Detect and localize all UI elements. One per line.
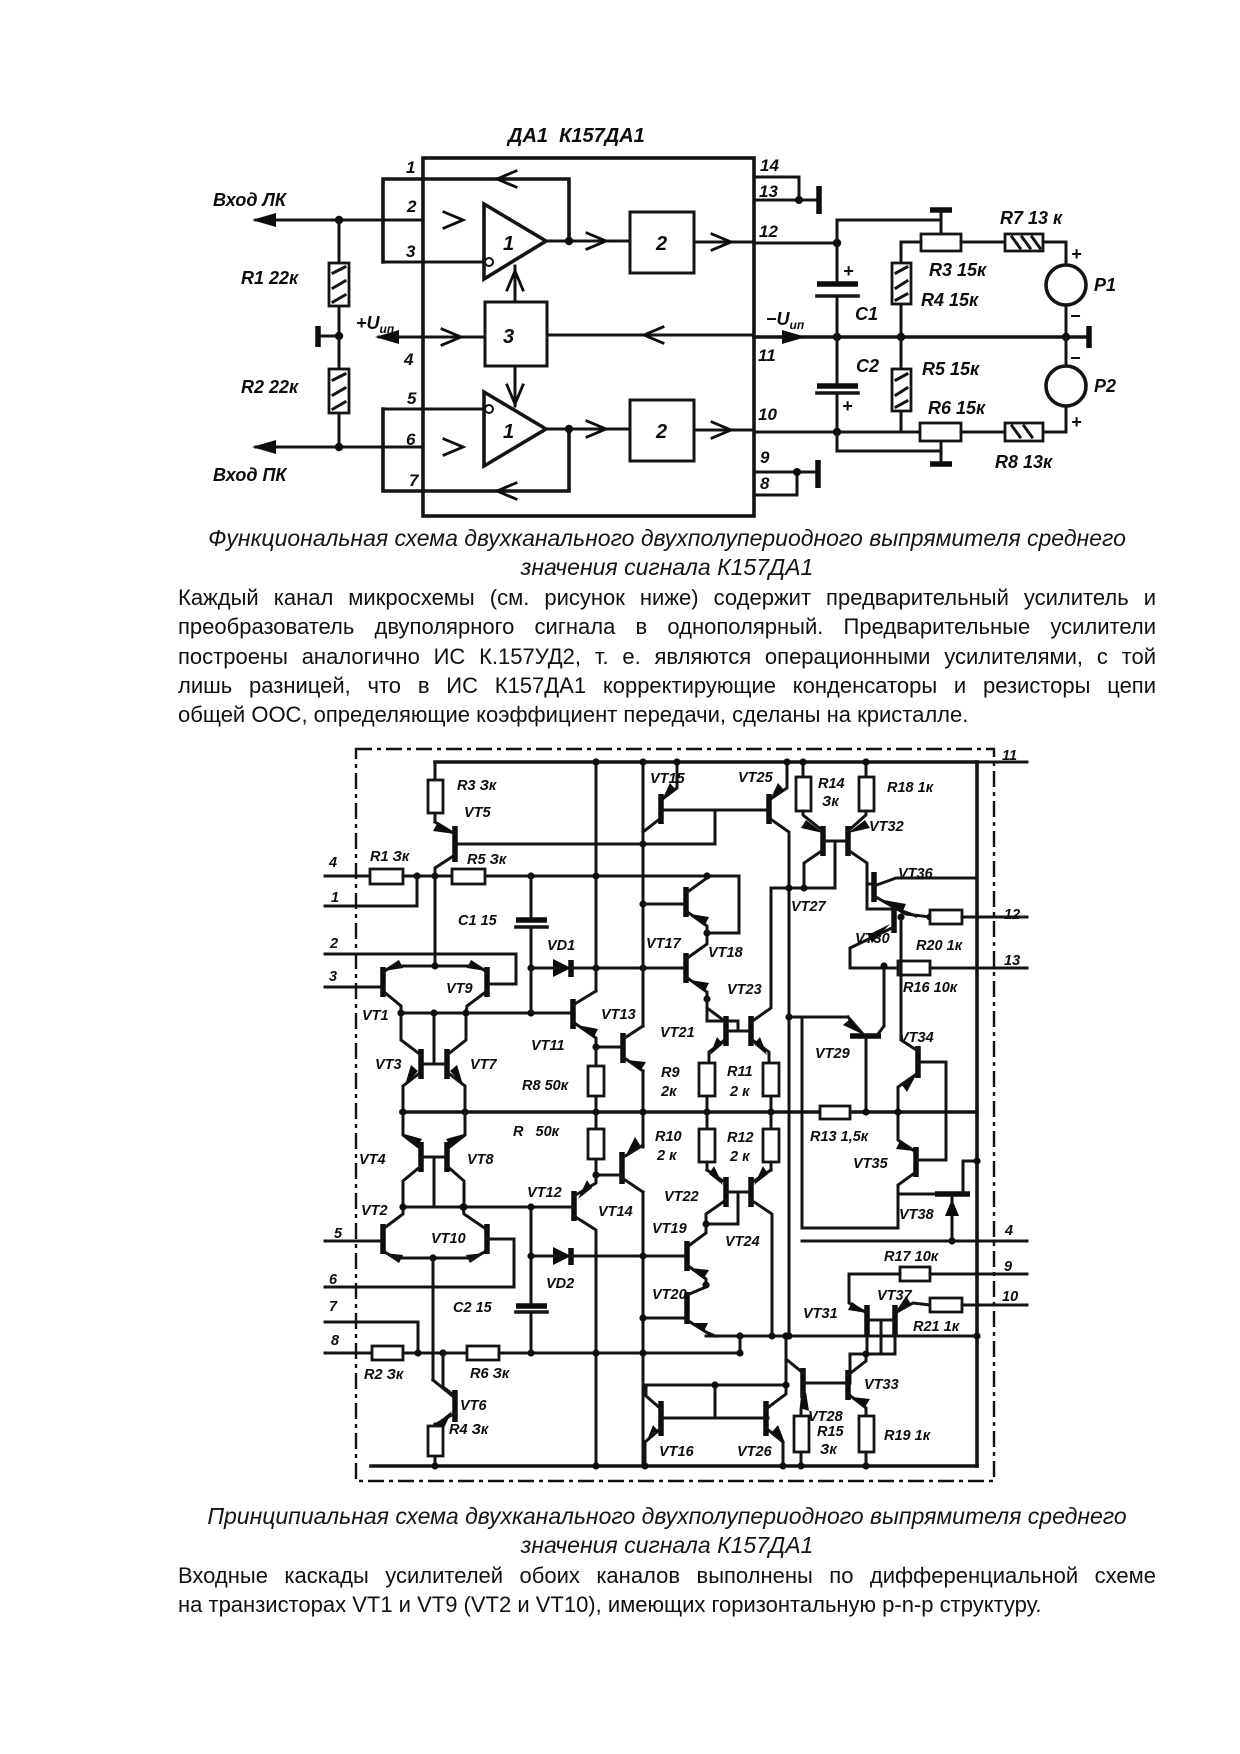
IC DA1 box xyxy=(423,158,754,516)
link line lower mid xyxy=(706,1335,977,1338)
svg-text:VT18: VT18 xyxy=(708,945,744,961)
svg-text:С2 15: С2 15 xyxy=(453,1300,493,1316)
svg-text:1: 1 xyxy=(406,158,415,177)
collector line to VT11 base xyxy=(401,1012,573,1015)
svg-text:1: 1 xyxy=(331,890,339,906)
wire pin9 to terminal xyxy=(754,471,817,474)
svg-text:8: 8 xyxy=(331,1333,340,1349)
svg-text:Вход ЛК: Вход ЛК xyxy=(213,190,288,210)
svg-text:R5 15к: R5 15к xyxy=(922,359,980,379)
svg-text:2 к: 2 к xyxy=(729,1149,750,1165)
svg-text:VT2: VT2 xyxy=(361,1203,388,1219)
collector loop left edge xyxy=(789,1017,898,1228)
svg-text:VT17: VT17 xyxy=(646,936,682,952)
svg-text:R16 10к: R16 10к xyxy=(903,980,958,996)
svg-text:VT20: VT20 xyxy=(652,1287,687,1303)
resistor R10 2k xyxy=(706,1112,709,1129)
svg-text:VT13: VT13 xyxy=(601,1007,636,1023)
wire pin14 xyxy=(754,177,799,200)
node input top xyxy=(335,216,343,224)
right inner supply rail xyxy=(975,762,979,1466)
resistor R15 3k xyxy=(794,1416,809,1452)
svg-text:R1 Зк: R1 Зк xyxy=(370,849,410,865)
mid rail -Uip xyxy=(754,335,1089,339)
svg-text:R10: R10 xyxy=(655,1129,682,1145)
resistor R3 3k xyxy=(434,762,437,822)
svg-text:6: 6 xyxy=(406,430,416,449)
svg-text:R11: R11 xyxy=(727,1064,753,1080)
wire R6 onward xyxy=(499,1352,740,1355)
svg-text:5: 5 xyxy=(407,389,417,408)
svg-text:9: 9 xyxy=(760,448,770,467)
svg-text:R9: R9 xyxy=(661,1065,680,1081)
svg-text:VT35: VT35 xyxy=(853,1156,889,1172)
svg-text:2к: 2к xyxy=(660,1084,677,1100)
feedback loop op-amp1 xyxy=(383,179,569,262)
wire R7 to P1 xyxy=(1043,242,1066,265)
terminal T below R6 xyxy=(940,441,943,464)
wire R8 to P2 xyxy=(1043,406,1066,432)
wire pin7 joining pin8 node xyxy=(325,1322,418,1353)
svg-text:7: 7 xyxy=(329,1299,338,1315)
svg-text:R5 Зк: R5 Зк xyxy=(467,852,507,868)
svg-text:VT14: VT14 xyxy=(598,1204,633,1220)
svg-text:VD2: VD2 xyxy=(546,1276,574,1292)
long vertical from top rail xyxy=(595,762,598,991)
arrow into op-amp2 input xyxy=(444,439,463,455)
wire pin8 joining pin9 xyxy=(754,472,797,495)
svg-text:VT5: VT5 xyxy=(464,805,492,821)
resistor R3 15k xyxy=(921,234,961,251)
resistor R6 3k xyxy=(467,1346,499,1360)
svg-text:VT1: VT1 xyxy=(362,1008,389,1024)
resistor R14 3k xyxy=(802,762,805,777)
svg-text:3: 3 xyxy=(406,242,416,261)
emitter rail VT1-VT9 xyxy=(397,965,473,968)
svg-text:VT29: VT29 xyxy=(815,1046,850,1062)
svg-text:R19 1к: R19 1к xyxy=(884,1428,931,1444)
svg-text:3: 3 xyxy=(329,969,337,985)
resistor R9 2k xyxy=(699,1063,715,1096)
svg-text:+Uип: +Uип xyxy=(356,313,395,336)
inverting circle op-amp1 xyxy=(485,258,493,266)
paragraph 1 xyxy=(178,583,1156,729)
svg-text:R20 1к: R20 1к xyxy=(916,938,963,954)
svg-text:3: 3 xyxy=(503,326,514,348)
svg-text:VT10: VT10 xyxy=(431,1231,466,1247)
resistor R20 1k xyxy=(930,910,962,924)
arrow on -U wire xyxy=(782,330,806,344)
svg-text:+: + xyxy=(843,261,854,281)
svg-text:R 50к: R 50к xyxy=(513,1124,560,1140)
svg-text:VT9: VT9 xyxy=(446,981,473,997)
wire R1 to R5 xyxy=(403,875,452,878)
svg-text:VT36: VT36 xyxy=(898,866,934,882)
arrow feedback bottom xyxy=(497,483,516,499)
arrow pin4 left end xyxy=(375,330,399,344)
arrow input PK left xyxy=(252,440,276,454)
resistor R6 15k xyxy=(920,423,961,441)
wire pin10 line xyxy=(754,431,920,434)
svg-text:10: 10 xyxy=(1002,1289,1018,1305)
svg-text:R2 Зк: R2 Зк xyxy=(364,1367,404,1383)
svg-text:+: + xyxy=(1071,244,1082,264)
svg-text:P2: P2 xyxy=(1094,376,1116,396)
arrow feedback top left xyxy=(497,171,516,187)
resistor R12 2k xyxy=(770,1112,773,1129)
terminal T above R3 xyxy=(940,211,943,234)
base tie VT28-VT33 xyxy=(803,1382,848,1385)
svg-text:R14: R14 xyxy=(818,776,845,792)
base line VT12 xyxy=(401,1206,574,1209)
svg-text:VT23: VT23 xyxy=(727,982,762,998)
arrow into op-amp1 input xyxy=(444,212,463,228)
wire R3 to R7 xyxy=(961,241,1005,244)
svg-text:VT11: VT11 xyxy=(531,1038,565,1054)
feedback loop op-amp2 xyxy=(383,409,569,491)
wire pin6 xyxy=(325,1239,514,1287)
svg-text:VT25: VT25 xyxy=(738,770,774,786)
emitter rail VT2-VT10 xyxy=(395,1257,473,1260)
wire pin3 to inverting input xyxy=(383,261,481,264)
wire pin3 to VT1 base xyxy=(325,986,383,989)
svg-text:VT16: VT16 xyxy=(659,1444,695,1460)
wire R5 to VT18 collector loop xyxy=(485,876,739,933)
wire P2 to mid rail xyxy=(1065,337,1068,366)
resistor R18 1k xyxy=(865,762,868,777)
wire pin4 +U xyxy=(379,336,485,339)
common tap terminal xyxy=(318,335,339,338)
arrow op-amp1 to block2 xyxy=(587,233,606,249)
wire bottom input pin6 xyxy=(256,446,423,449)
svg-text:−Uип: −Uип xyxy=(766,309,805,332)
wire pin13 to terminal xyxy=(754,199,817,202)
wire top input pin2 xyxy=(256,219,423,222)
resistor R8 50k xyxy=(595,1047,598,1112)
arrow op-amp2 to block2 xyxy=(587,421,606,437)
svg-text:R8 50к: R8 50к xyxy=(522,1078,569,1094)
caption: functional schematic xyxy=(178,524,1156,582)
wire pin1 joining pin4 node xyxy=(325,876,417,906)
arrow up into op-amp1 xyxy=(507,271,523,290)
wire op-amp2 output xyxy=(546,428,630,431)
wire pin12 to C chain xyxy=(754,242,837,245)
wire down to lower branch xyxy=(837,432,941,451)
svg-text:VT21: VT21 xyxy=(660,1025,695,1041)
VT17 base wire xyxy=(643,903,686,906)
svg-text:2: 2 xyxy=(655,233,667,255)
resistor R2 22k xyxy=(338,336,341,447)
base tie VT22-VT24 xyxy=(706,1192,751,1224)
svg-text:2: 2 xyxy=(329,936,338,952)
wire pin9 xyxy=(930,1273,1027,1276)
wire pin8 line xyxy=(325,1352,372,1355)
svg-text:С2: С2 xyxy=(856,356,879,376)
wire block2 top to pin12 xyxy=(694,241,754,244)
resistor R4 15k xyxy=(900,242,903,337)
svg-text:8: 8 xyxy=(760,474,770,493)
arrow input LK left xyxy=(252,213,276,227)
svg-text:R17 10к: R17 10к xyxy=(884,1249,939,1265)
capacitor C2 15 xyxy=(530,1207,533,1353)
arrow down into op-amp2 xyxy=(507,385,523,404)
svg-text:R3 Зк: R3 Зк xyxy=(457,778,497,794)
svg-text:VT22: VT22 xyxy=(664,1189,699,1205)
mid ground rail xyxy=(401,1110,977,1114)
svg-text:13: 13 xyxy=(759,182,778,201)
svg-text:R6 15к: R6 15к xyxy=(928,398,986,418)
resistor R1 3k xyxy=(370,869,403,884)
svg-text:VT27: VT27 xyxy=(791,899,827,915)
svg-text:VT3: VT3 xyxy=(375,1057,402,1073)
resistor R1 22k xyxy=(338,220,341,336)
svg-text:С1: С1 xyxy=(855,304,878,324)
op-amp U2 bottom xyxy=(484,392,546,466)
svg-text:14: 14 xyxy=(760,156,779,175)
svg-text:2 к: 2 к xyxy=(729,1084,750,1100)
svg-text:VD1: VD1 xyxy=(547,938,575,954)
svg-text:VT12: VT12 xyxy=(527,1185,562,1201)
wire up to R3 branch xyxy=(837,220,941,243)
bottom rail xyxy=(371,1464,977,1468)
svg-text:R7 13 к: R7 13 к xyxy=(1000,208,1063,228)
svg-text:R4 Зк: R4 Зк xyxy=(449,1422,489,1438)
svg-text:VT15: VT15 xyxy=(650,771,686,787)
svg-text:VT33: VT33 xyxy=(864,1377,899,1393)
svg-text:2 к: 2 к xyxy=(656,1148,677,1164)
svg-text:VT6: VT6 xyxy=(460,1398,488,1414)
svg-text:R18 1к: R18 1к xyxy=(887,780,934,796)
terminal bar top right xyxy=(816,186,822,214)
svg-text:VT38: VT38 xyxy=(899,1207,935,1223)
riser from R6 line xyxy=(739,1336,742,1353)
capacitor C1 15 xyxy=(530,876,533,968)
svg-text:VT7: VT7 xyxy=(470,1057,498,1073)
svg-text:VT4: VT4 xyxy=(359,1152,386,1168)
block 2 bottom xyxy=(630,400,694,461)
wire pin11 stub xyxy=(977,761,1027,764)
svg-text:Вход ПК: Вход ПК xyxy=(213,465,288,485)
resistor R11 2k xyxy=(763,1063,779,1096)
svg-text:10: 10 xyxy=(758,405,777,424)
wire R2 to R6 xyxy=(403,1352,467,1355)
base tie VT31-VT37 xyxy=(850,1320,895,1383)
positive supply top rail xyxy=(435,760,977,764)
node input bottom xyxy=(335,443,343,451)
caption: principal schematic xyxy=(178,1502,1156,1560)
base wire VT20 xyxy=(643,1317,687,1320)
svg-text:4: 4 xyxy=(328,855,337,871)
capacitor C1 xyxy=(836,243,839,337)
wire block3 to op-amp1 xyxy=(514,266,517,302)
svg-text:R1 22к: R1 22к xyxy=(241,268,299,288)
svg-text:Зк: Зк xyxy=(820,1442,837,1458)
base tie VT3-VT7 xyxy=(421,1013,447,1064)
svg-text:VT19: VT19 xyxy=(652,1221,687,1237)
terminal bar mid right xyxy=(1086,326,1092,348)
base tie VT16-VT26 xyxy=(645,1385,786,1418)
wire pin4 line xyxy=(802,1240,1027,1243)
wire pin5 to VT2 base xyxy=(325,1240,383,1243)
wire R3 left to R4 xyxy=(901,241,921,244)
svg-text:R8 13к: R8 13к xyxy=(995,452,1053,472)
svg-text:7: 7 xyxy=(409,471,420,490)
svg-text:R21 1к: R21 1к xyxy=(913,1319,960,1335)
svg-text:R6 Зк: R6 Зк xyxy=(470,1366,510,1382)
resistor R4 3k xyxy=(434,1424,437,1466)
base tie VT15-VT25 xyxy=(661,810,769,844)
chip boundary dash-dot border xyxy=(356,749,994,1481)
mirror node line xyxy=(771,887,835,890)
capacitor C2 xyxy=(836,337,839,432)
arrow on pin11 wire pointing left xyxy=(644,327,663,343)
resistor R5 3k xyxy=(452,869,485,884)
svg-text:2: 2 xyxy=(655,421,667,443)
meter P2 xyxy=(1046,366,1086,406)
svg-text:R3 15к: R3 15к xyxy=(929,260,987,280)
wire block2 bottom to pin10 xyxy=(694,429,754,432)
svg-text:VT24: VT24 xyxy=(725,1234,760,1250)
svg-text:R2 22к: R2 22к xyxy=(241,377,299,397)
svg-text:R4 15к: R4 15к xyxy=(921,290,979,310)
op-amp U1 top xyxy=(484,204,546,279)
svg-text:R12: R12 xyxy=(727,1130,754,1146)
base tie VT4-VT8 xyxy=(421,1157,447,1207)
arrow pin4 into block3 xyxy=(442,329,461,345)
base tie VT27-VT32 xyxy=(823,841,848,888)
svg-text:Зк: Зк xyxy=(822,794,839,810)
terminal bar bottom right xyxy=(815,460,821,488)
svg-text:VT32: VT32 xyxy=(869,819,904,835)
svg-text:−: − xyxy=(1070,348,1081,368)
wire R6 to R8 xyxy=(961,431,1005,434)
base tie VT21-VT23 xyxy=(707,999,751,1031)
svg-text:11: 11 xyxy=(758,346,776,365)
wire pin12 with R20 xyxy=(926,913,933,920)
svg-text:R15: R15 xyxy=(817,1424,845,1440)
wire block3 to op-amp2 xyxy=(514,366,517,406)
resistor R13 1.5k xyxy=(820,1106,850,1119)
svg-text:12: 12 xyxy=(1004,907,1020,923)
arrow to pin12 xyxy=(712,234,731,250)
svg-text:4: 4 xyxy=(403,350,414,369)
arrow to pin10 xyxy=(712,422,731,438)
inverting circle op-amp2 xyxy=(485,405,493,413)
svg-text:12: 12 xyxy=(759,222,778,241)
resistor R 50k xyxy=(595,1112,598,1175)
svg-text:VT28: VT28 xyxy=(808,1409,844,1425)
svg-text:С1 15: С1 15 xyxy=(458,913,498,929)
svg-text:1: 1 xyxy=(503,233,514,255)
resistor R2 3k xyxy=(372,1346,403,1360)
svg-text:2: 2 xyxy=(406,197,417,216)
wire C1 node down xyxy=(530,968,533,1013)
svg-text:+: + xyxy=(1071,412,1082,432)
resistor R5 15k xyxy=(901,337,920,432)
resistor R19 1k xyxy=(859,1416,874,1452)
long mid vertical xyxy=(642,762,645,1466)
svg-text:−: − xyxy=(1070,306,1081,326)
resistor R16 10k xyxy=(898,961,930,975)
wire block3 to pin11 xyxy=(547,334,754,337)
svg-text:VT8: VT8 xyxy=(467,1152,495,1168)
svg-text:+: + xyxy=(842,396,853,416)
paragraph 2 xyxy=(178,1561,1156,1620)
wire pin2 xyxy=(325,954,516,984)
wire pin4 line with R1 xyxy=(325,875,370,878)
resistor R7 13k xyxy=(1005,234,1043,251)
svg-text:VT26: VT26 xyxy=(737,1444,773,1460)
svg-text:VT31: VT31 xyxy=(803,1306,838,1322)
svg-text:P1: P1 xyxy=(1094,275,1116,295)
wire P1 to mid rail xyxy=(1065,305,1068,337)
svg-text:1: 1 xyxy=(503,421,514,443)
meter P1 xyxy=(1046,265,1086,305)
svg-text:R13 1,5к: R13 1,5к xyxy=(810,1129,869,1145)
block 3 xyxy=(485,302,547,366)
wire op-amp1 output xyxy=(546,240,630,243)
svg-text:ДА1 К157ДА1: ДА1 К157ДА1 xyxy=(506,125,645,147)
resistor R21 1k xyxy=(930,1298,962,1312)
resistor R8 13k xyxy=(1005,423,1043,441)
svg-text:4: 4 xyxy=(1004,1223,1013,1239)
block 2 top xyxy=(630,212,694,273)
